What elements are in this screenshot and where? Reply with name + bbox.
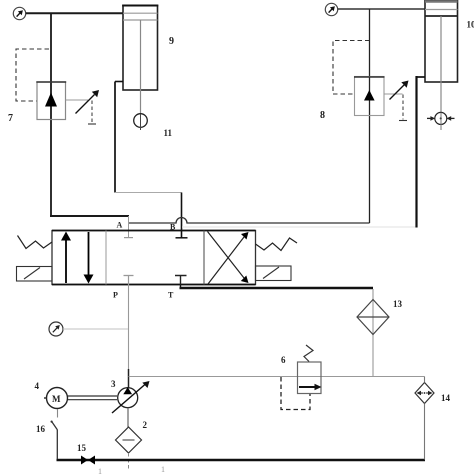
svg-text:M: M (52, 394, 61, 404)
svg-text:4: 4 (35, 381, 40, 391)
svg-text:13: 13 (393, 299, 403, 309)
svg-text:T: T (168, 291, 174, 300)
svg-text:1: 1 (98, 467, 102, 474)
svg-text:10: 10 (467, 20, 474, 30)
svg-text:6: 6 (281, 355, 286, 365)
svg-text:7: 7 (8, 113, 13, 124)
svg-text:8: 8 (320, 110, 325, 121)
svg-text:P: P (113, 291, 118, 300)
svg-text:9: 9 (169, 36, 174, 47)
svg-text:15: 15 (77, 443, 87, 453)
svg-text:A: A (117, 221, 123, 230)
svg-text:3: 3 (111, 379, 116, 389)
svg-text:1: 1 (161, 465, 165, 474)
svg-text:2: 2 (143, 420, 148, 430)
svg-text:14: 14 (441, 393, 451, 403)
svg-text:16: 16 (36, 424, 46, 434)
svg-text:11: 11 (164, 128, 173, 138)
